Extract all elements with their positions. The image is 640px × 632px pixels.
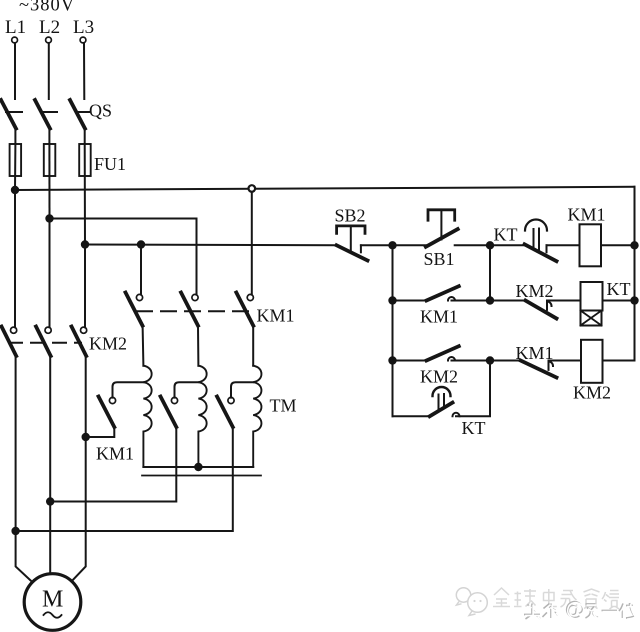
contactor KM1 top pole 3 [247,294,253,300]
KM1 top linkage dashed [137,310,250,312]
svg-text:M: M [42,587,63,613]
wire node B to KT contact [490,244,525,246]
bus L2 horizontal (second bus) [50,219,197,295]
KM2 main linkage dashed [9,342,81,344]
wire bus3 down to KM1 top pole 1 [140,245,142,295]
contact KM1 NC stub and hook [548,361,550,370]
motor tilde [44,612,62,618]
motor M circle [24,574,81,631]
timer KT NC delayed-opening blade [525,244,557,261]
wire L1 KM2 to motor [16,356,31,581]
junction dot star point [194,463,202,471]
junction dot L3-tap1 [82,433,90,441]
switch QS linkage dashed [6,111,89,113]
wire bus1 circle down to KM1 top pole 3 [251,192,253,295]
svg-text:KM2: KM2 [516,281,554,301]
coil KM1 [580,224,602,266]
svg-text:SB2: SB2 [335,206,366,226]
timer KT row4 delay stems [438,395,440,412]
wire KM2 coil to right bus [603,360,635,362]
svg-text:KT: KT [607,279,631,299]
svg-text:~380V: ~380V [19,0,75,16]
svg-text:KM1: KM1 [257,306,295,326]
wire QS to FU1 pole 1 [14,129,16,144]
TM lower bar [142,475,261,477]
svg-text:FU1: FU1 [94,154,126,174]
contact KM1 NO hook [448,297,455,301]
wire L3 bus to KM2 contact [84,245,86,328]
junction node A [388,241,396,249]
wire KT to KM1 coil [547,244,580,246]
svg-text:L1: L1 [5,17,26,38]
junction dot right bus row2 [630,296,638,304]
junction dot bus3 to KM1 pole1 [137,240,145,248]
coil KT delay box with X [581,311,602,326]
watermark text 头条@泵一代 embossed [524,601,636,620]
wire L1 bus to KM2 contact [14,189,16,327]
svg-text:KM1: KM1 [420,307,458,327]
node terminal circle on bus1 feeding KM1 pole3 [249,185,256,192]
wire SB2 to node A [361,244,393,246]
junction dot bus3-L3 [81,240,89,248]
contactor KM2 main pole 2 [45,327,51,333]
wire L3 KM2 to motor [72,356,86,581]
wire QS to FU1 pole 3 [84,129,86,144]
timer KT NO delayed-closing blade [430,403,453,417]
contactor KM1 top pole 2 [192,294,198,300]
wire node C to KM2 NC [490,300,526,302]
wire L2 bus to KM2 contact [49,219,51,328]
right return bus [634,187,636,361]
svg-text:KT: KT [494,225,518,245]
wire KM2 NC to KT coil [547,300,581,302]
transformer TM winding 2 [198,366,206,467]
timer KT right stub [546,245,548,252]
contact KM2 NC blade [526,301,557,319]
svg-text:KM1: KM1 [96,444,134,464]
coil KM2 [581,340,603,383]
button SB1 NO blade [426,229,458,247]
button SB2 right stub [360,245,362,252]
button SB2 NC blade [337,245,368,260]
tap wire 3 [231,382,253,397]
contact KM1 NO self-hold blade [427,286,459,300]
switch QS pole 2 blade [35,100,50,129]
junction node D [486,356,494,364]
wire L2 KM2 to motor [49,356,51,574]
bus L1 horizontal (top bus) [15,187,635,190]
contactor KM2 main pole 1 [11,327,17,333]
wire node D to KM1 NC [490,360,521,362]
row 4: wire left vertical to KT NO [393,415,430,417]
wire side pole1 to L3 [86,427,115,437]
contactor KM2 main pole 3 [81,327,87,333]
wire QS to FU1 pole 2 [48,129,50,144]
wire KM1 NC to KM2 coil [549,360,582,362]
terminal L1 [12,37,18,43]
svg-text:TM: TM [270,396,297,416]
contact KM1 NC blade [521,361,557,378]
switch QS pole 3 blade [70,100,85,129]
fuse FU1 pole 1 [10,144,22,176]
transformer TM winding 3 [253,366,261,467]
terminal L2 [46,37,52,43]
junction dot right bus row1 [630,241,638,249]
transformer TM winding 1 [143,366,151,467]
watermark logo bubbles [456,588,487,616]
junction dot L2-tap2 [46,497,54,505]
wire L3 terminal to QS [83,43,85,99]
mid vertical node B to C [489,245,491,300]
fuse FU1 pole 3 [79,144,91,176]
junction dot bus2-L2 [45,214,53,222]
timer KT row4 delay arc [433,387,451,396]
svg-text:L2: L2 [39,17,60,38]
contact KM2 NO hook [448,357,455,360]
svg-text:KM2: KM2 [89,334,127,354]
svg-text:KM1: KM1 [568,205,606,225]
switch QS pole 1 blade [1,100,16,129]
fuse FU1 pole 2 [44,144,56,176]
svg-text:QS: QS [89,101,112,121]
wire KM1 aux to node C [452,300,491,302]
contact KT NO hook [453,413,460,417]
tap wire 1 [113,382,144,397]
contact KM2 NC stub and hook [546,301,548,310]
svg-text:L3: L3 [73,17,94,38]
junction dot bus1-L1 [11,186,19,194]
wire KM1 pole3 to coil3 [252,326,254,366]
junction dot row2 left [388,296,396,304]
timer KT delay stems [533,229,535,250]
button SB1 actuator [428,210,455,220]
svg-text:KM2: KM2 [573,383,611,403]
wire KT coil to right bus [603,300,635,302]
terminal L3 [80,37,86,43]
junction dot L1-tap3 [11,527,19,535]
svg-text:SB1: SB1 [424,249,455,269]
junction node B [486,241,494,249]
watermark text 全球电气资源 (drawn strokes) [493,588,619,609]
bus L3 / control row1 feed [85,244,337,247]
junction dot row3 left [388,356,396,364]
wire L1 terminal to QS [14,43,16,99]
wire KM1 coil to right bus [601,244,635,246]
row 3: wire left to KM2 aux [393,360,427,362]
button SB2 actuator [337,226,365,234]
contactor KM1 side pole 3 [228,397,234,403]
tap wire 2 [175,382,199,397]
wire side pole2 to L2 [50,427,176,502]
wire KM1 pole1 to coil1 [142,326,145,366]
wire KT NO right to node D vertical [456,361,490,417]
contact KM2 NO self-hold blade [427,346,459,360]
wire KM1 pole2 to coil2 [197,326,199,366]
coil KT [581,282,603,311]
left control vertical [392,245,394,416]
svg-text:KT: KT [462,418,486,438]
contactor KM1 side pole 1 [109,397,115,403]
contactor KM1 side pole 2 [171,397,177,403]
wire L2 terminal to QS [48,43,50,99]
wire side pole3 to L1 [16,427,233,531]
timer KT delay arc [525,220,547,231]
svg-text:KM2: KM2 [420,367,458,387]
junction node C [486,296,494,304]
wire node A to SB1 [393,244,426,246]
contactor KM1 top pole 1 [136,294,142,300]
wire SB1 to node B [455,244,490,246]
wire KM2 aux to node D [452,360,491,362]
TM star bus [143,466,253,468]
row 2: wire node A2 to KM1 aux [393,300,427,302]
